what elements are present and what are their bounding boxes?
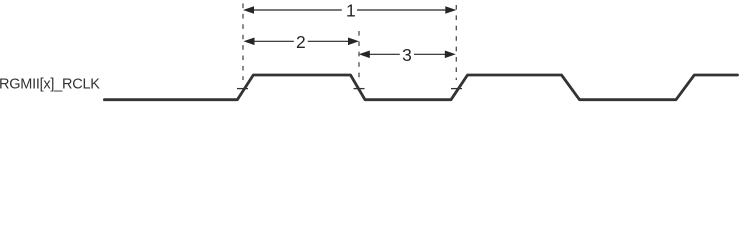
node B dashed reference line (falling edge): [358, 31, 360, 80]
dimension 1 shaft left segment: [253, 9, 342, 11]
dimension 1 left arrowhead: [243, 6, 254, 14]
edge crossing tick at node B: [354, 88, 365, 90]
dimension 3 shaft left segment: [369, 53, 400, 55]
dimension 2 shaft right segment: [308, 40, 350, 42]
svg-text:1: 1: [346, 1, 356, 21]
dimension 2 right arrowhead: [348, 38, 359, 46]
dimension 1 shaft right segment: [357, 9, 447, 11]
dimension 2 shaft left segment: [253, 40, 294, 42]
wire waveform RGMII[x]_RCLK: [104, 75, 737, 100]
dimension 3 right arrowhead: [445, 51, 456, 59]
dimension 3 shaft right segment: [414, 53, 447, 55]
svg-text:RGMII[x]_RCLK: RGMII[x]_RCLK: [0, 76, 100, 92]
node C dashed reference line (second rising edge): [455, 5, 457, 80]
svg-text:2: 2: [296, 32, 306, 52]
dimension 1 right arrowhead: [445, 6, 456, 14]
edge crossing tick at node C: [451, 88, 462, 90]
dimension 3 left arrowhead: [359, 51, 370, 59]
edge crossing tick at node A: [237, 88, 248, 90]
svg-text:3: 3: [402, 45, 412, 65]
node A dashed reference line (first rising edge): [242, 4, 244, 81]
dimension 2 left arrowhead: [244, 38, 255, 46]
